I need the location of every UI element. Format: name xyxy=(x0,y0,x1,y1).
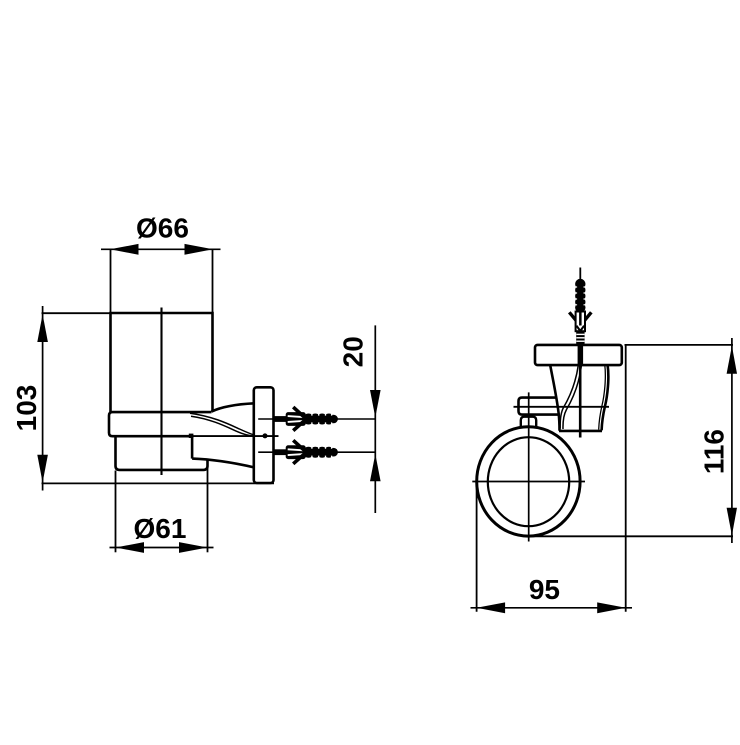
bracket arm top curve (front view) xyxy=(212,403,255,411)
bracket center line with dot xyxy=(192,435,279,437)
dimension 95 left arrow xyxy=(477,602,506,613)
holder ring outer circle (side view) xyxy=(477,427,580,536)
dimension 103 top arrow xyxy=(37,314,48,342)
wall anchor screw (top, side view) xyxy=(569,268,591,366)
dimension 95 left extension line xyxy=(476,482,478,612)
dimension 103 bottom arrow xyxy=(37,455,48,483)
dimension Ø61 line xyxy=(110,547,214,549)
bracket arm S-curve lower (side view) xyxy=(563,365,582,429)
dimension Ø66 left arrow xyxy=(110,244,139,255)
dimension 95 right arrow xyxy=(597,602,626,613)
dimension 103 line xyxy=(42,306,44,491)
dimension Ø66 right arrow xyxy=(185,244,214,255)
ring vertical center line xyxy=(528,392,530,541)
ring clamp tab (side view) xyxy=(519,398,560,415)
bracket arm right edge inner line xyxy=(599,365,606,429)
dimension 20 up arrow xyxy=(370,454,381,481)
wall plate (front view) xyxy=(254,387,274,483)
holder ring band (front view) xyxy=(109,412,212,436)
dimension 116 bottom arrow xyxy=(727,508,737,536)
wall anchor screw 1 (left view) xyxy=(258,407,375,431)
bracket arm bottom curve (front view) xyxy=(192,459,254,468)
svg-text:103: 103 xyxy=(11,385,42,432)
tumbler center line xyxy=(160,308,162,476)
svg-text:116: 116 xyxy=(699,429,730,474)
dimension 103 bottom extension line xyxy=(42,482,275,484)
svg-text:95: 95 xyxy=(529,574,560,605)
holder ring inner circle (side view) xyxy=(488,437,569,526)
band-arm junction nub xyxy=(189,434,194,438)
ring clamp neck xyxy=(521,417,536,428)
svg-text:Ø61: Ø61 xyxy=(134,513,187,544)
dimension Ø61 right arrow xyxy=(179,542,208,553)
screw center line through arm xyxy=(579,365,582,437)
center mark dot xyxy=(263,433,268,438)
glass tumbler outline (front view) xyxy=(111,313,213,412)
dimension Ø61 extension line left xyxy=(115,471,117,553)
bracket arm right edge (side view) xyxy=(602,365,609,430)
dimension Ø66 extension line right xyxy=(212,249,214,313)
dimension Ø61 left arrow xyxy=(116,542,145,553)
svg-text:Ø66: Ø66 xyxy=(136,213,189,244)
dimension 95 right extension line xyxy=(625,345,627,612)
wall anchor screw 2 (left view) xyxy=(258,440,375,464)
dimension 116 line xyxy=(731,338,733,543)
wall plate (side view) xyxy=(535,345,622,365)
dimension 20 down arrow xyxy=(370,390,381,417)
dimension 116 top arrow xyxy=(727,346,737,374)
dimension 103 top extension line xyxy=(42,312,111,314)
tumbler lower section (front view) xyxy=(116,437,208,470)
dimension 116 top extension line xyxy=(625,344,734,346)
bracket arm bottom edge (side view) xyxy=(559,430,602,433)
dimension Ø66 extension line left xyxy=(110,249,112,313)
dimension Ø61 extension line right xyxy=(207,459,209,552)
ring clamp tab mid line xyxy=(514,406,610,408)
bracket arm S-curve upper (side view) xyxy=(560,365,578,428)
dimension 116 bottom extension line xyxy=(529,535,734,537)
ring horizontal center line xyxy=(472,481,585,483)
bracket arm left edge (front view) xyxy=(191,436,194,458)
bracket arm left edge (side view) xyxy=(550,365,559,431)
dimension 20 line xyxy=(374,325,376,513)
svg-text:20: 20 xyxy=(338,336,369,367)
dimension 95 line xyxy=(471,607,633,609)
bracket arm S-curve lower xyxy=(191,416,255,436)
bracket arm S-curve upper xyxy=(190,413,255,435)
dimension Ø66 line xyxy=(101,248,221,250)
